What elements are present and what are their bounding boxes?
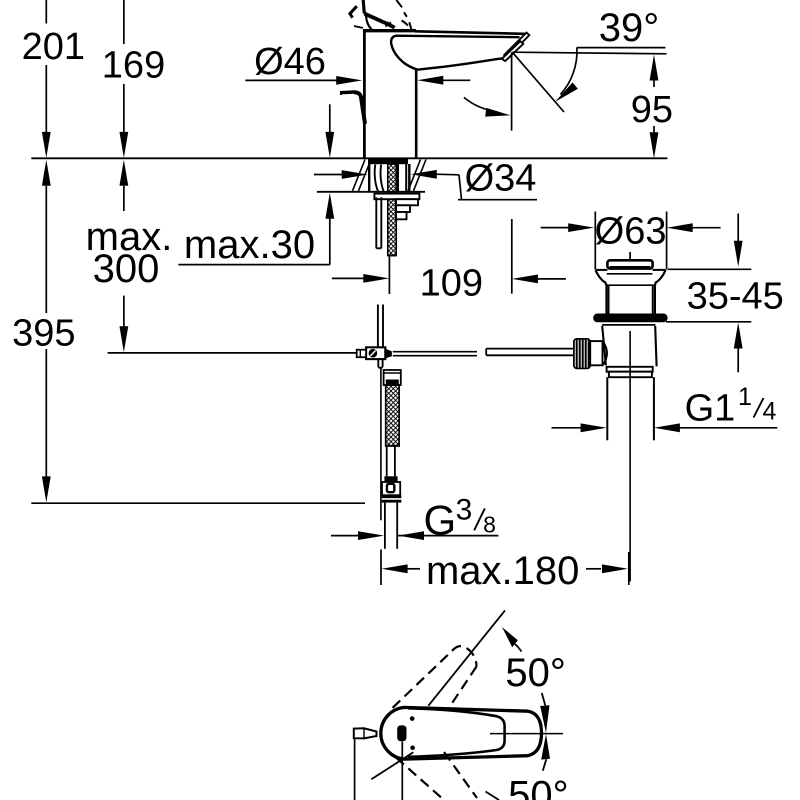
linkage rod thick segment xyxy=(486,349,574,356)
mounting flange under counter xyxy=(374,194,419,200)
spacer tubes right of shank xyxy=(398,164,406,192)
dimension 395 column and text xyxy=(45,186,47,478)
waste flange neck xyxy=(596,270,607,285)
svg-text:4: 4 xyxy=(763,398,777,426)
top view handle inner outline xyxy=(408,708,505,757)
39 degree slant line xyxy=(512,52,564,112)
svg-text:169: 169 xyxy=(102,45,165,87)
pivot dots xyxy=(410,716,415,721)
faucet body top bar xyxy=(363,29,416,32)
svg-text:50°: 50° xyxy=(508,774,569,800)
svg-text:201: 201 xyxy=(22,26,85,68)
svg-text:109: 109 xyxy=(420,263,483,305)
threaded shank (cross-hatched) xyxy=(388,164,396,256)
lower-left diagonal xyxy=(371,752,413,779)
knob neck xyxy=(590,341,602,365)
waste centreline xyxy=(629,331,631,582)
handle centreline xyxy=(490,733,563,735)
dashed lever lowered position xyxy=(396,752,477,800)
39 degree baseline xyxy=(577,47,666,49)
pull rod lower extension line xyxy=(380,369,382,521)
dimension max.300 column and text xyxy=(123,186,125,328)
waste tailpipe xyxy=(607,377,654,440)
hose nut body xyxy=(382,482,400,495)
waste flange top edges xyxy=(596,269,666,271)
svg-text:95: 95 xyxy=(631,89,673,131)
dimension 201 arrows xyxy=(42,132,51,186)
faucet body left edge xyxy=(363,30,366,158)
shank bottom edge xyxy=(388,255,396,257)
knurled adjuster knob xyxy=(574,339,590,369)
extension line from aerator xyxy=(354,739,356,800)
dashed lever raised position xyxy=(393,646,477,709)
spout top outer edge xyxy=(415,31,527,34)
pull-rod knob behind body xyxy=(340,92,365,124)
faucet body right edge xyxy=(415,70,418,159)
bowtie arrows at handle end xyxy=(540,705,549,733)
T-clamp screw head xyxy=(369,349,378,358)
mounting hole left wall xyxy=(368,164,370,192)
handle slot mark xyxy=(397,725,406,741)
aerator stub xyxy=(354,728,377,738)
395 reference line xyxy=(31,502,365,504)
braided hose xyxy=(386,385,399,446)
svg-text:Ø63: Ø63 xyxy=(595,210,667,252)
hose nut flange xyxy=(382,495,402,502)
svg-text:3: 3 xyxy=(456,493,473,526)
svg-text:35-45: 35-45 xyxy=(687,276,784,318)
T-clamp right cone xyxy=(385,349,392,359)
countertop line xyxy=(31,157,667,159)
spout outlet slat lower xyxy=(502,41,523,61)
braid crimp tick xyxy=(386,445,399,447)
spout outlet vertical reference line xyxy=(511,52,513,293)
hose nut black band xyxy=(384,476,397,482)
svg-text:50°: 50° xyxy=(505,651,566,695)
pull rod guide tube xyxy=(376,197,381,248)
drain pull rod xyxy=(378,305,383,368)
faucet base bar in mounting hole xyxy=(368,159,408,165)
line under O-ring xyxy=(602,324,656,326)
svg-text:max.180: max.180 xyxy=(426,549,579,593)
svg-text:max.30: max.30 xyxy=(184,223,315,267)
upper 50 arc arrow xyxy=(502,627,518,647)
39 degree outer arc with arrow xyxy=(561,48,577,95)
waste lower body xyxy=(602,326,606,365)
spout outlet slat upper xyxy=(504,33,529,58)
countertop underside line xyxy=(317,191,425,193)
max.300 reference line xyxy=(108,352,357,354)
waste upper body xyxy=(606,285,655,313)
pop-up waste cap centre tick xyxy=(629,252,631,260)
svg-text:395: 395 xyxy=(12,313,75,355)
svg-text:G1: G1 xyxy=(685,388,736,430)
svg-text:Ø46: Ø46 xyxy=(254,41,326,83)
mounting hole right wall xyxy=(408,164,410,192)
svg-text:39°: 39° xyxy=(599,6,660,50)
dimension 169 arrows xyxy=(119,132,128,186)
dimension 201 column xyxy=(45,0,47,133)
dimension G 3/8 xyxy=(331,535,498,537)
svg-text:300: 300 xyxy=(93,247,160,291)
lever axis line raised xyxy=(428,610,505,705)
svg-text:1: 1 xyxy=(738,383,752,411)
spout outlet level line xyxy=(512,52,666,54)
top view handle outer outline xyxy=(381,707,542,759)
svg-text:G: G xyxy=(424,497,457,544)
39 degree inner arc with arrow xyxy=(464,97,492,110)
linkage rod thin segment xyxy=(393,352,477,356)
hose lower tube xyxy=(387,446,395,476)
countertop section hatch right xyxy=(408,160,426,191)
mounting nut steps xyxy=(396,199,418,219)
svg-text:Ø34: Ø34 xyxy=(465,157,537,199)
dimension G 1 1/4 xyxy=(552,427,778,429)
upper 50 arc lower tail into bowtie xyxy=(542,693,546,706)
lever fragments at top xyxy=(350,0,412,29)
hose top ferrule xyxy=(384,370,401,385)
svg-text:8: 8 xyxy=(483,512,496,538)
supply pipe stub xyxy=(385,503,397,549)
hose curves in hole xyxy=(375,165,379,192)
waste collar rings xyxy=(607,367,653,372)
T-clamp block xyxy=(366,347,385,359)
T-clamp left screw xyxy=(357,350,366,358)
dimension 169 column xyxy=(123,0,125,133)
pop-up waste cap xyxy=(607,260,652,268)
waste O-ring seal xyxy=(593,314,667,323)
countertop section hatch left xyxy=(353,160,372,191)
extension line from slot xyxy=(401,742,403,800)
spout inner outline and underside xyxy=(391,36,519,70)
lower axis fragment xyxy=(486,792,500,800)
